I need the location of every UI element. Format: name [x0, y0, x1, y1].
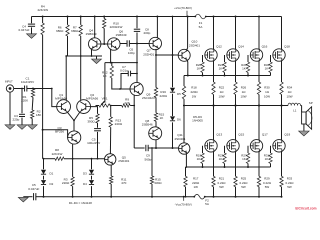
label R2 18K — [36, 110, 41, 118]
svg-text:R922K: R922K — [124, 98, 129, 106]
wire Q3 base feed — [43, 130, 69, 138]
wire Q4 Q6 bases — [101, 43, 108, 45]
resistor R19 — [201, 146, 204, 167]
capacitor C8 — [134, 16, 140, 44]
wire -Vcc bottom rail left section — [44, 196, 195, 198]
wire D4 to rail — [91, 186, 93, 198]
wire R6 to Q1 collector — [66, 36, 67, 100]
wire VR1 to R9 — [110, 105, 122, 107]
label D3 — [83, 172, 87, 176]
svg-text:D5-D61N4005: D5-D61N4005 — [192, 115, 203, 123]
diode D6 — [170, 94, 175, 121]
wire D2 to rail — [43, 186, 45, 198]
svg-text:D6: D6 — [177, 118, 181, 122]
wire W158 to Q5 base — [104, 159, 106, 160]
connector input jack — [6, 85, 13, 92]
wire Q1 emitter — [67, 112, 74, 121]
wire C1 to base column — [27, 88, 52, 90]
label R16 220 — [160, 90, 168, 98]
label Q8 2SB546 — [142, 119, 153, 127]
svg-text:D3: D3 — [83, 172, 87, 176]
capacitor C3 — [19, 88, 25, 125]
label C4 0.047uF — [18, 24, 29, 32]
label R17 220 1W — [192, 177, 200, 189]
resistor R34 — [280, 82, 283, 107]
transistor Q19 — [273, 140, 285, 152]
resistor R10 — [103, 16, 106, 45]
resistor R29 — [257, 176, 260, 197]
label R9 22K — [124, 98, 129, 106]
diode D3 — [89, 159, 94, 175]
svg-text:R218K: R218K — [36, 110, 41, 118]
label Q17 — [262, 132, 268, 136]
capacitor C1 — [25, 86, 27, 92]
label Q4 2SB649 — [86, 29, 97, 37]
label VR1 1K — [102, 96, 108, 104]
label R6 680 — [56, 26, 64, 34]
transistor Q5 — [105, 154, 116, 165]
resistor R15 — [150, 147, 153, 184]
wire Q12 drain — [213, 16, 215, 50]
wire lower gate bus — [186, 166, 271, 168]
label Q14 — [238, 45, 244, 49]
wire +Vcc top rail left section — [32, 16, 196, 18]
wire bias column upper — [172, 16, 174, 55]
label Q7 2SD401 — [143, 49, 154, 57]
label R21 0.22ohm 5W — [218, 177, 227, 189]
wire Q13 source — [213, 152, 215, 177]
wire Q4 collector to rail — [94, 16, 96, 38]
resistor R22 — [212, 82, 215, 107]
svg-text:-Vcc(70-80V): -Vcc(70-80V) — [175, 203, 192, 207]
label R30 1ohm 10W — [264, 86, 270, 99]
svg-text:D1-D4 = 1N4148: D1-D4 = 1N4148 — [69, 201, 92, 205]
svg-text:+Vcc(70-80V): +Vcc(70-80V) — [174, 6, 192, 10]
label C1 10uF/25V — [21, 76, 35, 84]
label R24 1K — [218, 63, 224, 71]
resistor R13 — [109, 106, 112, 128]
svg-text:Q15: Q15 — [238, 132, 244, 136]
svg-text:SP: SP — [309, 101, 313, 105]
diode D4 — [89, 176, 94, 185]
wire input column to Q1 base — [51, 88, 57, 107]
transistor Q3 — [68, 131, 81, 144]
ground below jack — [5, 125, 15, 130]
wire Q4 emitter — [91, 49, 93, 56]
resistor R31 — [269, 146, 272, 167]
wire Q6 collector to C6 — [120, 43, 127, 45]
wire Q2 base to R5 — [91, 107, 98, 114]
label R22 1ohm 10W — [218, 86, 224, 99]
label R5 390 — [87, 116, 95, 124]
ground below C3 — [17, 125, 27, 130]
resistor R30 — [257, 82, 260, 107]
resistor R12 — [110, 63, 113, 78]
wire speaker to ground — [303, 124, 305, 131]
resistor R27 — [246, 146, 249, 167]
label R32 1K — [264, 63, 270, 71]
wire Q12 source — [213, 61, 215, 82]
label R20 1K — [196, 63, 202, 71]
wire Q8 emitter down — [155, 140, 157, 149]
wire Q19 source — [281, 152, 283, 177]
svg-text:D2: D2 — [50, 182, 54, 186]
wire Q6 emitter — [110, 49, 112, 64]
wire emitter bus W56 — [65, 55, 102, 57]
wire R15b to Q8 — [155, 121, 157, 127]
wire Q17 drain — [258, 105, 260, 140]
label L1 — [293, 108, 297, 112]
label R7 680 — [71, 26, 79, 34]
label Q12 — [216, 45, 222, 49]
wire output bus — [183, 105, 288, 107]
wire Q13 drain — [213, 105, 215, 140]
ground below speaker — [299, 131, 310, 136]
resistor R8 horizontal — [43, 157, 105, 160]
resistor R18 — [182, 76, 185, 107]
label R15b 1K — [159, 113, 165, 121]
label F2 5A — [205, 199, 210, 207]
label C8 200p — [144, 28, 151, 36]
transistor Q7 — [149, 37, 161, 49]
resistor R23 — [223, 146, 226, 167]
label R3 220 — [62, 177, 70, 185]
svg-text:D4: D4 — [83, 182, 87, 186]
resistor R16 — [154, 55, 157, 98]
transistor Q15 — [227, 140, 239, 152]
capacitor C2 — [23, 193, 43, 200]
wire R2 to ground — [31, 119, 33, 125]
wire Q15 drain — [235, 105, 237, 140]
wire R11 to rail — [110, 184, 112, 198]
wire Q14 drain — [235, 16, 237, 50]
wire Q16 source — [258, 61, 260, 82]
svg-text:L1: L1 — [293, 108, 297, 112]
capacitor C6 — [127, 40, 137, 46]
label D6 — [177, 118, 181, 122]
svg-text:D5: D5 — [177, 92, 181, 96]
label Q3 MPSA56 — [55, 126, 64, 134]
label R11 470 — [121, 177, 127, 185]
label C7 0.01u — [120, 65, 128, 73]
wire W62 corner — [105, 62, 138, 64]
ground below C4 — [27, 34, 37, 39]
wire Q19 drain — [281, 105, 283, 140]
label -Vcc(70-80V) — [175, 203, 192, 207]
svg-text:Q14: Q14 — [238, 45, 244, 49]
trimmer VR1 — [96, 101, 111, 107]
label Q5 2SD401 — [118, 156, 129, 164]
label R25 0.22ohm 5W — [240, 177, 249, 189]
label R31 1K — [264, 153, 270, 161]
capacitor C9 — [134, 106, 178, 152]
label R33 0.22ohm 5W — [286, 177, 295, 189]
label R4 22K/1W — [37, 5, 48, 13]
label R15 330 — [154, 177, 162, 185]
label C5 100u/25V — [87, 137, 101, 145]
resistor R21 — [212, 176, 215, 197]
wire R13 to Q5 collector — [109, 127, 111, 154]
ground below C2 — [18, 197, 28, 202]
diode D2 — [41, 176, 46, 185]
transistor Q14 — [227, 49, 239, 61]
fuse F1 — [194, 14, 206, 19]
wire left column to bottom — [42, 129, 44, 159]
label Q10 2SD401 — [189, 40, 200, 48]
svg-text:Q13: Q13 — [216, 132, 222, 136]
svg-text:F15A: F15A — [199, 21, 203, 29]
svg-text:Q17: Q17 — [262, 132, 268, 136]
svg-text:Q16: Q16 — [262, 45, 268, 49]
wire Q10 collector — [186, 16, 188, 51]
diode D1 — [41, 159, 46, 175]
label R12 1K — [102, 70, 108, 78]
svg-text:R11470: R11470 — [121, 177, 127, 185]
resistor R7 — [79, 16, 82, 37]
resistor R2 — [31, 110, 34, 119]
node -Vcc tick — [183, 196, 185, 201]
label Q16 — [262, 45, 268, 49]
resistor R11 — [110, 176, 113, 184]
resistor R9 — [122, 104, 131, 107]
label SP — [309, 101, 313, 105]
wire R7 to Q2 collector — [80, 36, 82, 100]
resistor R6 — [66, 16, 69, 37]
label Q13 — [216, 132, 222, 136]
label C3 220p — [13, 114, 20, 122]
label D2 — [50, 182, 54, 186]
transistor Q1 — [57, 100, 71, 114]
wire drive line — [155, 54, 178, 56]
label R8 22K/1W — [52, 148, 63, 156]
wire -Vcc bottom rail right section — [205, 196, 282, 198]
label R19 1K — [196, 153, 202, 161]
transistor Q9 — [130, 82, 143, 95]
wire Q18 source — [281, 61, 283, 82]
label R23 1K — [218, 153, 224, 161]
svg-text:Q12: Q12 — [216, 45, 222, 49]
wire upper gate bus — [184, 75, 271, 77]
transistor Q13 — [205, 140, 217, 152]
capacitor C4 — [28, 17, 35, 34]
label Q15 — [238, 132, 244, 136]
label D1-D4 = 1N4148 — [69, 201, 92, 205]
label R34 1ohm 10W — [286, 86, 292, 99]
wire R4 column down to feedback corner — [42, 16, 44, 130]
wire Q10 emitter to bus1 — [187, 60, 189, 77]
resistor R24 — [223, 55, 226, 76]
svg-text:INPUT: INPUT — [5, 80, 13, 84]
wire R12 to Q9 base — [112, 78, 131, 90]
label Q19 — [284, 132, 290, 136]
label C2 0.047uF — [28, 183, 39, 191]
label C6 100p — [128, 48, 135, 56]
wire Q2 emitter — [74, 112, 80, 121]
label Q2 MPSA56 — [86, 93, 98, 101]
wire Q14 source — [235, 61, 237, 82]
wire R3 to rail — [72, 186, 74, 198]
resistor R3 — [71, 159, 74, 187]
transistor Q18 — [273, 49, 285, 61]
diode D5 — [170, 55, 175, 92]
label Q1 MPSA56 — [55, 93, 67, 101]
wire Q18 drain — [281, 17, 283, 50]
label Q11 2SD401 — [174, 133, 185, 141]
resistor R32 — [269, 55, 272, 76]
label R26 1ohm 10W — [240, 86, 246, 99]
speaker SP — [302, 107, 312, 129]
label R18 220 1W — [190, 86, 198, 99]
wire W62 left drop — [104, 63, 106, 101]
resistor R15b — [154, 98, 157, 122]
wire tail to Q3 — [73, 120, 75, 131]
wire C8 to Q7 base — [136, 43, 149, 45]
label F1 5A — [199, 21, 203, 29]
transistor Q16 — [250, 49, 262, 61]
wire Q7 emitter to drive — [155, 49, 157, 55]
label D5-D6 1N4005 — [192, 115, 203, 123]
label D1 — [50, 172, 54, 176]
label R13 240 — [115, 118, 123, 126]
transistor Q11 — [179, 143, 190, 154]
resistor R5 — [96, 114, 99, 123]
resistor R17 — [184, 167, 187, 198]
resistor R33 — [280, 176, 283, 197]
wire Q9 emitter — [133, 95, 135, 106]
label R10 220/1W — [110, 21, 123, 29]
label D4 — [83, 182, 87, 186]
wire Q17 source — [258, 152, 260, 177]
transistor Q2 — [77, 100, 91, 114]
wire Q11 collector — [183, 106, 185, 143]
wire R15 to rail — [151, 184, 153, 198]
label INPUT — [5, 80, 13, 84]
svg-text:Q19: Q19 — [284, 132, 290, 136]
resistor R1 — [31, 88, 34, 98]
wire Q16 drain — [258, 16, 260, 50]
label +Vcc(70-80V) — [174, 6, 192, 10]
inductor L1 — [288, 103, 301, 105]
wire Q3 emitter — [72, 144, 74, 159]
wire R1 to R2 — [31, 97, 34, 110]
resistor R25 — [234, 176, 237, 197]
wire D6 to W148 — [172, 122, 174, 149]
capacitor C7 — [121, 71, 138, 89]
resistor R26 — [234, 82, 237, 107]
wire R9 to Q9 emitter — [130, 105, 135, 107]
wire +Vcc top rail right section — [206, 16, 282, 18]
wire L1 to speaker — [301, 106, 302, 113]
wire jack to ground — [9, 92, 11, 125]
label Q18 — [284, 45, 290, 49]
label C9 560p — [145, 154, 152, 162]
label R27 1K — [241, 153, 247, 161]
label Q9 2SC3423 — [142, 92, 155, 100]
resistor R28 — [246, 55, 249, 76]
label Q6 2SB649 — [116, 29, 127, 37]
transistor Q17 — [250, 140, 262, 152]
transistor Q4 — [89, 38, 101, 50]
label R29 0.22ohm 5W — [263, 177, 272, 189]
wire Q9 collector — [136, 44, 138, 83]
transistor Q10 — [178, 49, 190, 61]
svg-text:Q18: Q18 — [284, 45, 290, 49]
transistor Q8 — [149, 127, 162, 140]
svg-text:D1: D1 — [50, 172, 54, 176]
resistor R20 — [201, 55, 204, 76]
label D5 — [177, 92, 181, 96]
transistor Q12 — [205, 49, 217, 61]
wire Q15 source — [235, 152, 237, 177]
label R1 220K — [21, 95, 28, 103]
wire Q5 emitter — [110, 165, 112, 176]
wire jack to C1 — [14, 88, 24, 90]
node +Vcc tick — [186, 11, 188, 17]
label R28 1K — [241, 63, 247, 71]
watermark elcircuit — [295, 207, 316, 211]
resistor R4 — [41, 17, 44, 35]
ground on W56 — [92, 56, 102, 64]
capacitor C5 — [94, 123, 101, 159]
wire Q7 collector to rail — [156, 16, 158, 39]
ground below R2 — [27, 125, 37, 130]
wire Q11 emitter — [186, 153, 188, 168]
transistor Q6 — [108, 38, 120, 50]
svg-text:ElCircuit.com: ElCircuit.com — [295, 207, 316, 211]
fuse F2 — [193, 194, 205, 199]
